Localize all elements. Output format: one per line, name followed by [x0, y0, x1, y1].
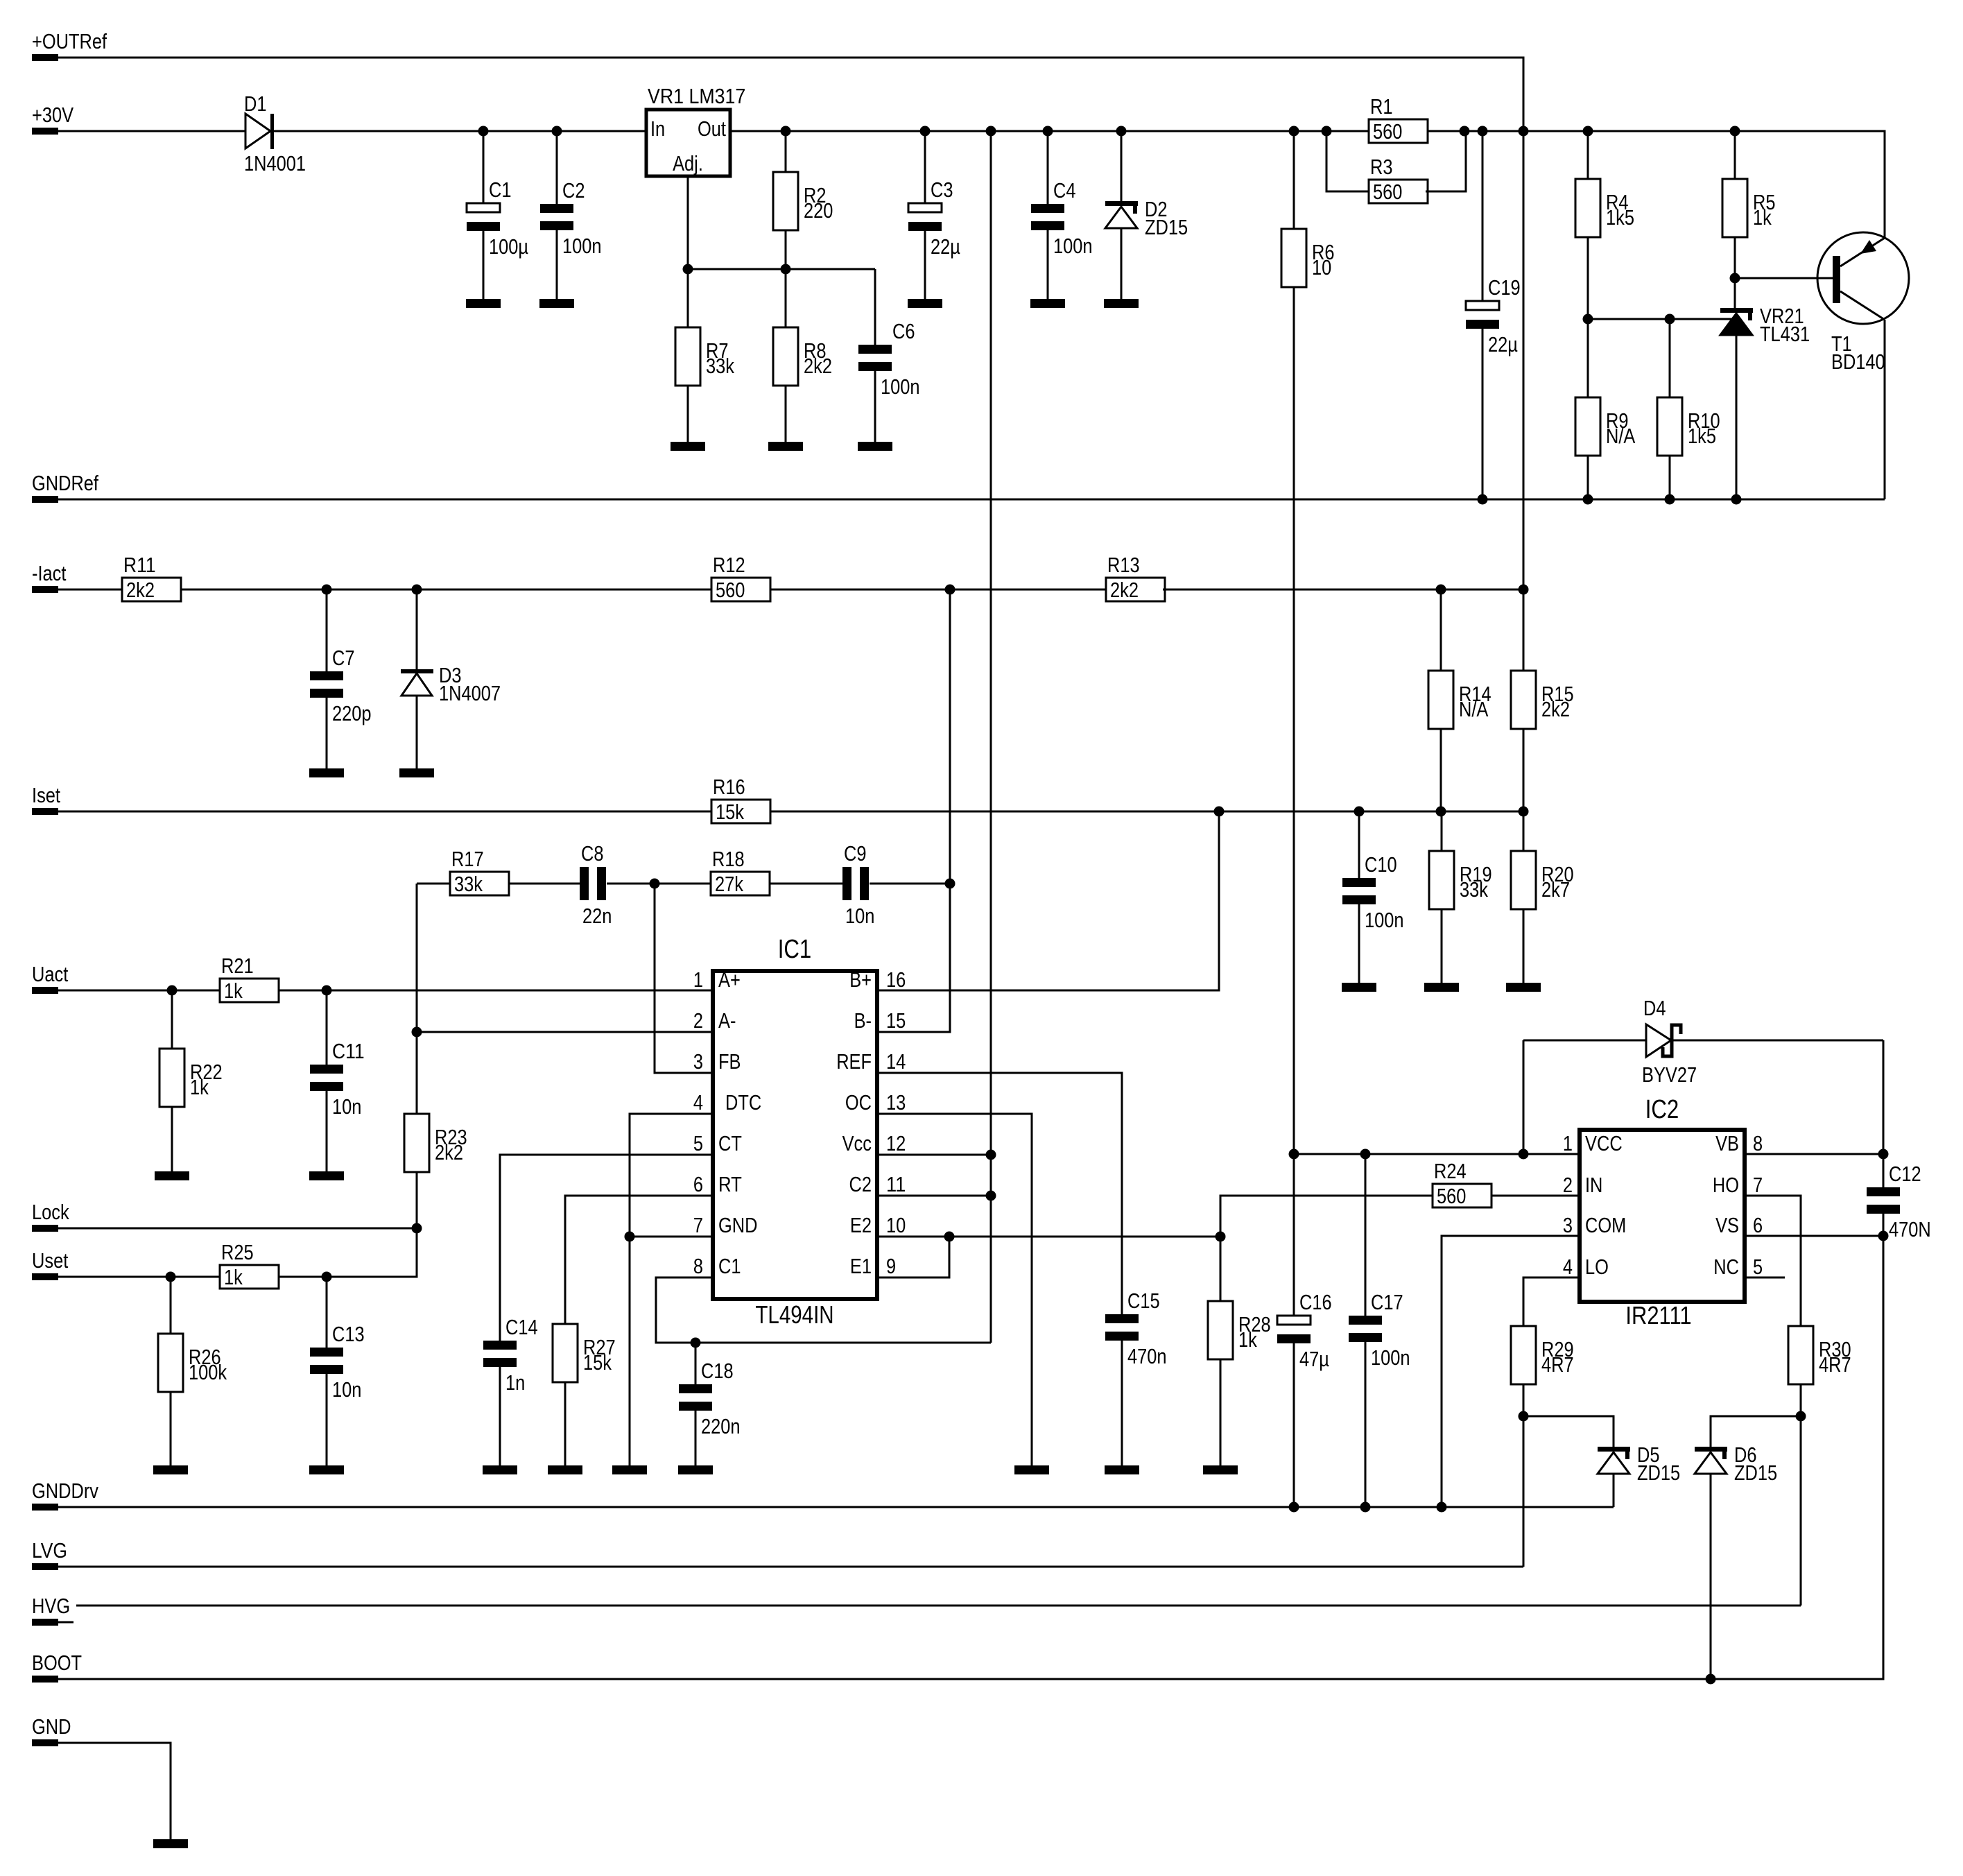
svg-text:R1: R1 [1370, 94, 1393, 119]
junction R4 on anode bus [1583, 314, 1593, 325]
junction R3 right on +30V [1460, 126, 1470, 137]
resistor R4 1k5 [1575, 179, 1634, 237]
svg-text:1N4007: 1N4007 [439, 681, 501, 705]
IC U1 TL494IN box [713, 935, 877, 1329]
svg-text:2: 2 [1563, 1173, 1573, 1197]
svg-text:TL431: TL431 [1760, 322, 1810, 346]
wire IC1 RT pin6 to R27 [565, 1196, 713, 1324]
svg-text:10: 10 [886, 1213, 906, 1237]
ground R20 [1506, 983, 1541, 992]
junction C16 on GNDDrv [1289, 1502, 1299, 1513]
pin 9 E1 of IC1 [850, 1254, 896, 1278]
svg-text:C18: C18 [701, 1359, 734, 1383]
pin 4 LO of IC2 [1563, 1255, 1609, 1279]
junction C19 on GNDRef [1478, 494, 1488, 505]
wire R24 to IC2 IN pin2 [1491, 1195, 1580, 1197]
junction D4-C12 VB node [1878, 1149, 1889, 1160]
ground C2 [539, 299, 574, 308]
svg-text:560: 560 [716, 578, 745, 602]
junction D1-C1 on +30V [478, 126, 489, 137]
wire C4 bottom [1047, 230, 1049, 299]
svg-text:OC: OC [845, 1090, 872, 1115]
pin 2 A- of IC1 [693, 1008, 736, 1033]
resistor R29 4R7 [1511, 1326, 1574, 1384]
wire R7 top [687, 269, 689, 327]
svg-text:2: 2 [693, 1008, 703, 1033]
wire IC1 C1 pin8 loop to Vcc column [656, 1277, 991, 1343]
ground C18 [678, 1465, 713, 1474]
svg-text:R13: R13 [1107, 553, 1140, 577]
node Lock terminal [32, 1200, 69, 1232]
capacitor C13 10n [310, 1322, 365, 1402]
junction E2-R24-R28 node [1216, 1232, 1226, 1242]
wire R20 top [1523, 811, 1525, 851]
svg-text:N/A: N/A [1459, 697, 1489, 721]
ground C1 [466, 299, 501, 308]
svg-text:6: 6 [1753, 1213, 1763, 1237]
svg-text:2k7: 2k7 [1541, 877, 1570, 902]
svg-text:BD140: BD140 [1831, 350, 1885, 374]
resistor R18 27k [711, 847, 770, 896]
junction GND pin7 on DTC column [625, 1232, 635, 1242]
junction D6 on BOOT [1706, 1674, 1716, 1685]
svg-text:C1: C1 [718, 1254, 741, 1278]
svg-text:1: 1 [693, 967, 703, 992]
pin 4 DTC of IC1 [693, 1090, 761, 1115]
svg-text:33k: 33k [1460, 877, 1488, 902]
resistor R20 2k7 [1511, 851, 1574, 909]
wire C11 bottom [326, 1091, 328, 1171]
svg-text:COM: COM [1585, 1213, 1626, 1237]
svg-text:GNDDrv: GNDDrv [32, 1479, 98, 1503]
wire Adj node bus [688, 268, 875, 270]
capacitor C10 100n [1342, 852, 1404, 932]
resistor R25 1k [220, 1240, 279, 1289]
junction R15 on -Iact [1519, 585, 1529, 595]
pin 2 IN of IC2 [1563, 1173, 1603, 1197]
junction R10 on anode bus [1665, 314, 1675, 325]
wire GND terminal lead [58, 1743, 171, 1839]
wire GNDRef rail [58, 499, 1885, 501]
junction C18 on C1 loop [691, 1338, 701, 1348]
zener diode D2 ZD15 [1105, 197, 1188, 239]
junction R26 on Uset [166, 1272, 176, 1282]
svg-text:33k: 33k [706, 354, 734, 378]
svg-text:Uset: Uset [32, 1248, 69, 1273]
svg-text:+OUTRef: +OUTRef [32, 29, 107, 53]
svg-text:7: 7 [1753, 1173, 1763, 1197]
svg-text:N/A: N/A [1606, 424, 1636, 448]
junction C13 on Uset [322, 1272, 332, 1282]
wire R23 bottom to Lock [416, 1172, 418, 1228]
ground C7 [309, 768, 344, 777]
svg-text:100k: 100k [189, 1360, 227, 1384]
svg-text:15: 15 [886, 1008, 906, 1033]
resistor R23 2k2 [404, 1114, 467, 1172]
ground R28 [1203, 1465, 1238, 1474]
svg-text:1k: 1k [224, 1265, 243, 1289]
capacitor C12 470N [1867, 1162, 1931, 1241]
junction C9-B- node [945, 879, 955, 889]
shunt regulator VR21 TL431 [1720, 304, 1810, 346]
wire D6 anode to BOOT [1710, 1474, 1712, 1679]
wire Uset R25 to Lock column [279, 1228, 417, 1277]
resistor R11 2k2 [122, 553, 181, 602]
wire VCC node to D4 [1523, 1040, 1525, 1154]
svg-text:11: 11 [886, 1172, 906, 1196]
wire D4 anode line [1523, 1040, 1646, 1042]
wire R4 top [1587, 131, 1589, 179]
node HVG terminal [32, 1594, 70, 1626]
wire R10 bottom [1669, 456, 1671, 499]
wire R10 top [1669, 319, 1671, 397]
wire T1 collector to GNDRef [1884, 320, 1886, 499]
svg-text:2k2: 2k2 [1541, 697, 1570, 721]
capacitor C6 100n [858, 319, 920, 399]
wire C9 to B- vertical [870, 883, 950, 885]
ground R27 [548, 1465, 582, 1474]
junction R14 on -Iact [1436, 585, 1446, 595]
junction COM on GNDDrv [1437, 1502, 1447, 1513]
wire GNDDrv rail [58, 1506, 1614, 1508]
wire C1 top [483, 131, 485, 204]
wire D4 cathode to VB column [1672, 1040, 1883, 1042]
svg-text:C7: C7 [332, 646, 355, 670]
svg-text:560: 560 [1373, 180, 1402, 204]
svg-text:47µ: 47µ [1299, 1347, 1329, 1371]
svg-text:10: 10 [1312, 255, 1331, 279]
wire R26 top [170, 1277, 172, 1334]
capacitor C8 22n [580, 841, 612, 928]
resistor R6 10 [1281, 229, 1335, 287]
svg-text:IN: IN [1585, 1173, 1602, 1197]
node GNDRef terminal [32, 471, 98, 503]
svg-text:C17: C17 [1371, 1290, 1403, 1314]
wire R4 R9 R10 VR21 node bus [1588, 318, 1736, 320]
wire R22 bottom [171, 1107, 173, 1171]
junction R4 on +30V [1583, 126, 1593, 137]
junction R7 on Adj node [683, 264, 693, 275]
junction R3 left on +30V [1322, 126, 1332, 137]
resistor R27 15k [553, 1324, 616, 1382]
wire IC2 LO pin4 to R29 and LVG [1523, 1277, 1580, 1326]
wire IC1 GND pin7 [630, 1236, 713, 1238]
svg-text:6: 6 [693, 1172, 703, 1196]
wire R6 top [1293, 131, 1295, 229]
resistor R1 560 [1369, 94, 1428, 144]
svg-text:Adj.: Adj. [673, 151, 703, 175]
svg-text:C16: C16 [1299, 1290, 1332, 1314]
ground R19 [1424, 983, 1459, 992]
wire C16 bottom [1293, 1343, 1295, 1507]
svg-text:1k: 1k [1753, 205, 1772, 230]
svg-text:1n: 1n [505, 1370, 525, 1395]
svg-text:C11: C11 [332, 1039, 365, 1063]
wire C17 bottom [1365, 1342, 1367, 1507]
ground C14 [483, 1465, 517, 1474]
wire D2 top [1121, 131, 1123, 201]
svg-text:E1: E1 [850, 1254, 872, 1278]
wire IC2 VB pin8 [1745, 1153, 1883, 1155]
svg-text:470N: 470N [1889, 1217, 1931, 1241]
junction T1 base node [1730, 273, 1740, 284]
ground C3 [908, 299, 942, 308]
junction C2 pin11 [986, 1191, 996, 1201]
junction D3 on -Iact [412, 585, 422, 595]
wire C4 top [1047, 131, 1049, 204]
wire HVG rail [76, 1605, 1801, 1607]
diode D1 1N4001 [244, 92, 306, 175]
svg-text:5: 5 [1753, 1255, 1763, 1279]
svg-text:Vcc: Vcc [842, 1131, 872, 1155]
svg-text:C3: C3 [931, 178, 953, 202]
svg-text:10n: 10n [332, 1094, 361, 1119]
wire C15 bottom [1121, 1341, 1123, 1465]
wire C19 top [1482, 131, 1484, 301]
wire R28 bottom [1220, 1359, 1222, 1465]
node Uact terminal [32, 962, 69, 994]
pin 5 NC of IC2 [1713, 1255, 1763, 1279]
junction C4 on +30V [1043, 126, 1053, 137]
wire IC2 NC pin5 stub [1745, 1277, 1785, 1279]
resistor R30 4R7 [1788, 1326, 1851, 1384]
wire R17 left to A- column [417, 883, 450, 885]
wire IC1 C2 pin11 [877, 1195, 991, 1197]
junction Vcc pin12 [986, 1150, 996, 1160]
wire R20 bottom [1523, 909, 1525, 983]
capacitor C2 100n [540, 178, 602, 258]
wire VCC line to IC2 pin1 [1294, 1153, 1580, 1155]
node -Iact terminal [32, 561, 67, 593]
wire R3 right leg [1426, 131, 1466, 191]
svg-text:+30V: +30V [32, 103, 73, 127]
svg-text:ZD15: ZD15 [1734, 1461, 1777, 1485]
wire LVG rail [58, 1566, 1523, 1568]
svg-text:22µ: 22µ [1488, 332, 1518, 356]
wire R22 top [171, 990, 173, 1049]
pin 1 A+ of IC1 [693, 967, 741, 992]
ground DTC GND column [612, 1465, 647, 1474]
pin 3 COM of IC2 [1563, 1213, 1626, 1237]
resistor R14 N/A [1428, 671, 1491, 729]
svg-text:GND: GND [32, 1714, 71, 1739]
junction C3 on +30V [920, 126, 931, 137]
svg-text:2k2: 2k2 [435, 1140, 463, 1164]
wire R9 bottom [1587, 456, 1589, 499]
svg-text:In: In [650, 117, 665, 141]
svg-text:470n: 470n [1127, 1344, 1167, 1368]
wire R14 top [1440, 590, 1442, 671]
wire C7 bottom [326, 698, 328, 768]
wire D3 top [416, 590, 418, 669]
svg-text:R3: R3 [1370, 155, 1393, 179]
wire R29 bottom to LVG [1523, 1384, 1525, 1567]
pin 14 REF of IC1 [836, 1049, 906, 1074]
junction R6 on +30V [1289, 126, 1299, 137]
wire C6 bottom [874, 371, 876, 442]
junction R6-C16 on VCC line [1289, 1149, 1299, 1160]
wire Iset terminal to R16 [58, 811, 711, 813]
wire R4 bottom [1587, 237, 1589, 319]
svg-text:R11: R11 [123, 553, 156, 577]
capacitor C1 100u [467, 178, 528, 259]
junction D4 on VCC line [1519, 1149, 1529, 1160]
junction VR21 on GNDRef [1731, 494, 1742, 505]
svg-text:C13: C13 [332, 1322, 365, 1346]
svg-text:A-: A- [718, 1008, 736, 1033]
junction B- column on -Iact [945, 585, 955, 595]
svg-text:100n: 100n [562, 234, 602, 258]
ground R22 [155, 1171, 189, 1180]
svg-text:LO: LO [1585, 1255, 1609, 1279]
wire Lock rail [58, 1228, 417, 1230]
svg-text:TL494IN: TL494IN [755, 1300, 833, 1329]
wire VR21 anode to GNDRef [1736, 335, 1738, 499]
svg-text:Lock: Lock [32, 1200, 69, 1224]
svg-text:27k: 27k [715, 872, 743, 896]
svg-text:R25: R25 [221, 1240, 254, 1264]
wire IC1 Vcc pin12 [877, 1154, 991, 1156]
svg-text:220p: 220p [332, 701, 372, 725]
wire R6 bottom [1293, 287, 1295, 1154]
capacitor C18 220n [679, 1359, 741, 1438]
wire A- to IC1 pin2 [417, 1031, 713, 1033]
pin 7 GND of IC1 [693, 1213, 758, 1237]
svg-text:HO: HO [1713, 1173, 1739, 1197]
svg-text:22n: 22n [582, 904, 612, 928]
wire R19 top [1441, 811, 1443, 851]
wire -Iact terminal to R11 [58, 589, 122, 591]
wire R3 left leg [1326, 131, 1369, 191]
svg-text:VB: VB [1715, 1131, 1739, 1155]
wire VR1 Adj pin [687, 176, 689, 269]
svg-text:1: 1 [1563, 1131, 1573, 1155]
junction R2 on +30V [781, 126, 791, 137]
node +30V terminal [32, 103, 73, 135]
wire R2 top [785, 131, 787, 172]
junction +OUTRef on +30V [1519, 126, 1529, 137]
svg-text:100n: 100n [1053, 234, 1093, 258]
wire Uact R21 to IC1 pin1 [279, 990, 713, 992]
svg-text:7: 7 [693, 1213, 703, 1237]
junction R19 on Iset [1436, 807, 1446, 817]
svg-text:HVG: HVG [32, 1594, 70, 1618]
wire R27 bottom [564, 1382, 567, 1465]
svg-text:4R7: 4R7 [1541, 1352, 1574, 1377]
svg-text:C8: C8 [581, 841, 604, 866]
wire C8 to R18 [607, 883, 711, 885]
svg-text:C1: C1 [489, 178, 512, 202]
junction C11 on Uact [322, 986, 332, 996]
wire C14 bottom [499, 1367, 501, 1465]
svg-text:B-: B- [854, 1008, 872, 1033]
wire R7 bottom [687, 386, 689, 442]
junction R10 on GNDRef [1665, 494, 1675, 505]
svg-text:8: 8 [1753, 1131, 1763, 1155]
svg-text:14: 14 [886, 1049, 906, 1074]
wire Iset R16 to R20 column [770, 811, 1523, 813]
pin 15 B- of IC1 [854, 1008, 906, 1033]
junction C2 on +30V [552, 126, 562, 137]
wire IC1 E1 pin9 [877, 1237, 949, 1277]
ground C6 [858, 442, 892, 451]
svg-text:BOOT: BOOT [32, 1651, 82, 1675]
svg-text:C2: C2 [562, 178, 585, 203]
junction R29-D5 gate node [1519, 1411, 1529, 1422]
ground D3 [399, 768, 434, 777]
wire R30 bottom to HVG [1800, 1384, 1802, 1606]
junction A- node [412, 1027, 422, 1038]
capacitor C15 470n [1105, 1289, 1167, 1368]
svg-text:R16: R16 [713, 775, 745, 799]
junction D2 on +30V [1116, 126, 1127, 137]
resistor R5 1k [1722, 179, 1776, 237]
transistor T1 BD140 [1817, 232, 1909, 374]
capacitor C7 220p [310, 646, 372, 725]
junction R30-D6 gate node [1796, 1411, 1806, 1422]
wire FB to IC1 pin3 [655, 884, 713, 1073]
svg-text:10n: 10n [845, 904, 874, 928]
wire +30V rail D1 to VR1 [274, 130, 646, 132]
wire IC2 HO pin7 to R30 [1745, 1196, 1801, 1326]
diode D4 BYV27 [1642, 996, 1697, 1087]
svg-text:E2: E2 [850, 1213, 872, 1237]
pin 7 HO of IC2 [1713, 1173, 1763, 1197]
svg-text:Iset: Iset [32, 783, 60, 807]
node GNDDrv terminal [32, 1479, 98, 1511]
svg-text:R17: R17 [451, 847, 484, 871]
svg-text:IC1: IC1 [778, 935, 812, 964]
wire IC1 E2 pin10 [877, 1236, 1220, 1238]
svg-text:GNDRef: GNDRef [32, 471, 98, 495]
wire -Iact R11 to R12 [181, 589, 711, 591]
svg-text:C4: C4 [1053, 178, 1076, 203]
wire D2 bottom [1121, 228, 1123, 299]
ground R7 [671, 442, 705, 451]
svg-text:Out: Out [698, 117, 726, 141]
pin 10 E2 of IC1 [850, 1213, 906, 1237]
pin 5 CT of IC1 [693, 1131, 742, 1155]
wire IC1 CT pin5 to C14 [500, 1155, 713, 1341]
junction C12-VS node [1878, 1231, 1889, 1241]
node GND terminal [32, 1714, 71, 1746]
ground C4 [1030, 299, 1065, 308]
svg-text:16: 16 [886, 967, 906, 992]
resistor R22 1k [159, 1049, 223, 1107]
wire R8 bottom [785, 386, 787, 442]
wire -Iact R13 to R15 column [1163, 589, 1523, 591]
svg-text:REF: REF [836, 1049, 872, 1074]
junction B+ column on Iset [1214, 807, 1225, 817]
pin 16 B+ of IC1 [849, 967, 906, 992]
svg-text:1k5: 1k5 [1688, 424, 1716, 448]
zener diode D5 ZD15 [1598, 1443, 1680, 1485]
wire C11 top [326, 990, 328, 1065]
svg-text:2k2: 2k2 [804, 354, 832, 378]
wire R5 bottom [1734, 237, 1736, 308]
wire IC2 COM pin3 to GNDDrv [1442, 1236, 1580, 1507]
wire C18 bottom [695, 1411, 697, 1465]
svg-text:C6: C6 [892, 319, 915, 343]
pin 13 OC of IC1 [845, 1090, 906, 1115]
wire +30V rail R1 to T1 emitter [1426, 131, 1885, 238]
wire R9 top [1587, 319, 1589, 397]
svg-text:220: 220 [804, 198, 833, 223]
wire C10 bottom [1358, 904, 1360, 983]
junction C10 on Iset [1354, 807, 1365, 817]
resistor R3 560 [1369, 155, 1428, 204]
svg-text:IC2: IC2 [1645, 1095, 1679, 1124]
